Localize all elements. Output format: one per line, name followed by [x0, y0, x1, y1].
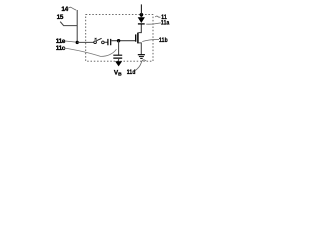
svg-text:11b: 11b — [159, 37, 168, 44]
svg-text:11c: 11c — [56, 45, 66, 52]
svg-text:11e: 11e — [56, 38, 66, 45]
svg-text:15: 15 — [57, 14, 64, 21]
svg-text:11a: 11a — [161, 20, 170, 27]
svg-text:VB: VB — [114, 70, 122, 78]
svg-text:14: 14 — [61, 6, 68, 13]
svg-text:11d: 11d — [127, 70, 136, 77]
